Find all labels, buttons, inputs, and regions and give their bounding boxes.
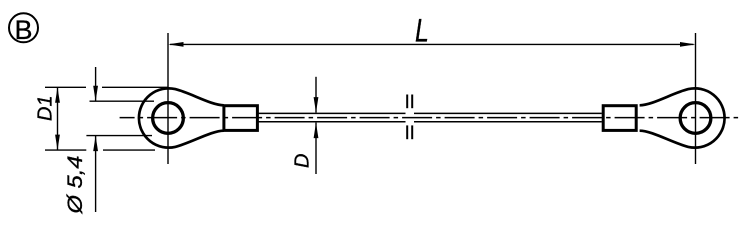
- svg-text:Ø 5,4: Ø 5,4: [64, 156, 87, 215]
- svg-text:L: L: [415, 13, 429, 49]
- svg-text:B: B: [14, 15, 32, 45]
- svg-text:D: D: [292, 154, 314, 168]
- svg-text:D1: D1: [35, 95, 57, 121]
